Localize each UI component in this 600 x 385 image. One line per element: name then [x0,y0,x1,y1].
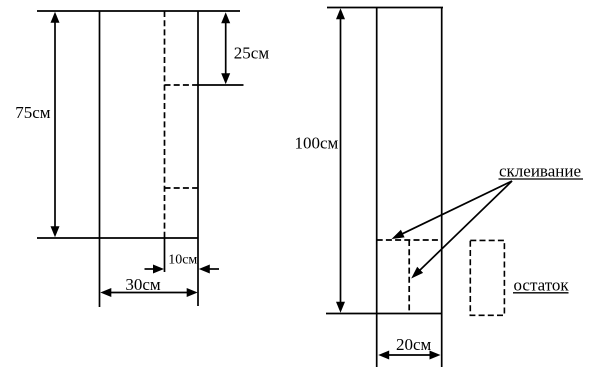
svg-text:30см: 30см [125,275,161,294]
svg-text:100см: 100см [295,134,339,153]
svg-text:25см: 25см [234,44,270,63]
svg-text:остаток: остаток [514,275,570,294]
svg-text:склеивание: склеивание [499,162,581,181]
svg-text:20см: 20см [396,335,432,354]
svg-text:75см: 75см [15,103,51,122]
svg-text:10см: 10см [168,253,197,268]
